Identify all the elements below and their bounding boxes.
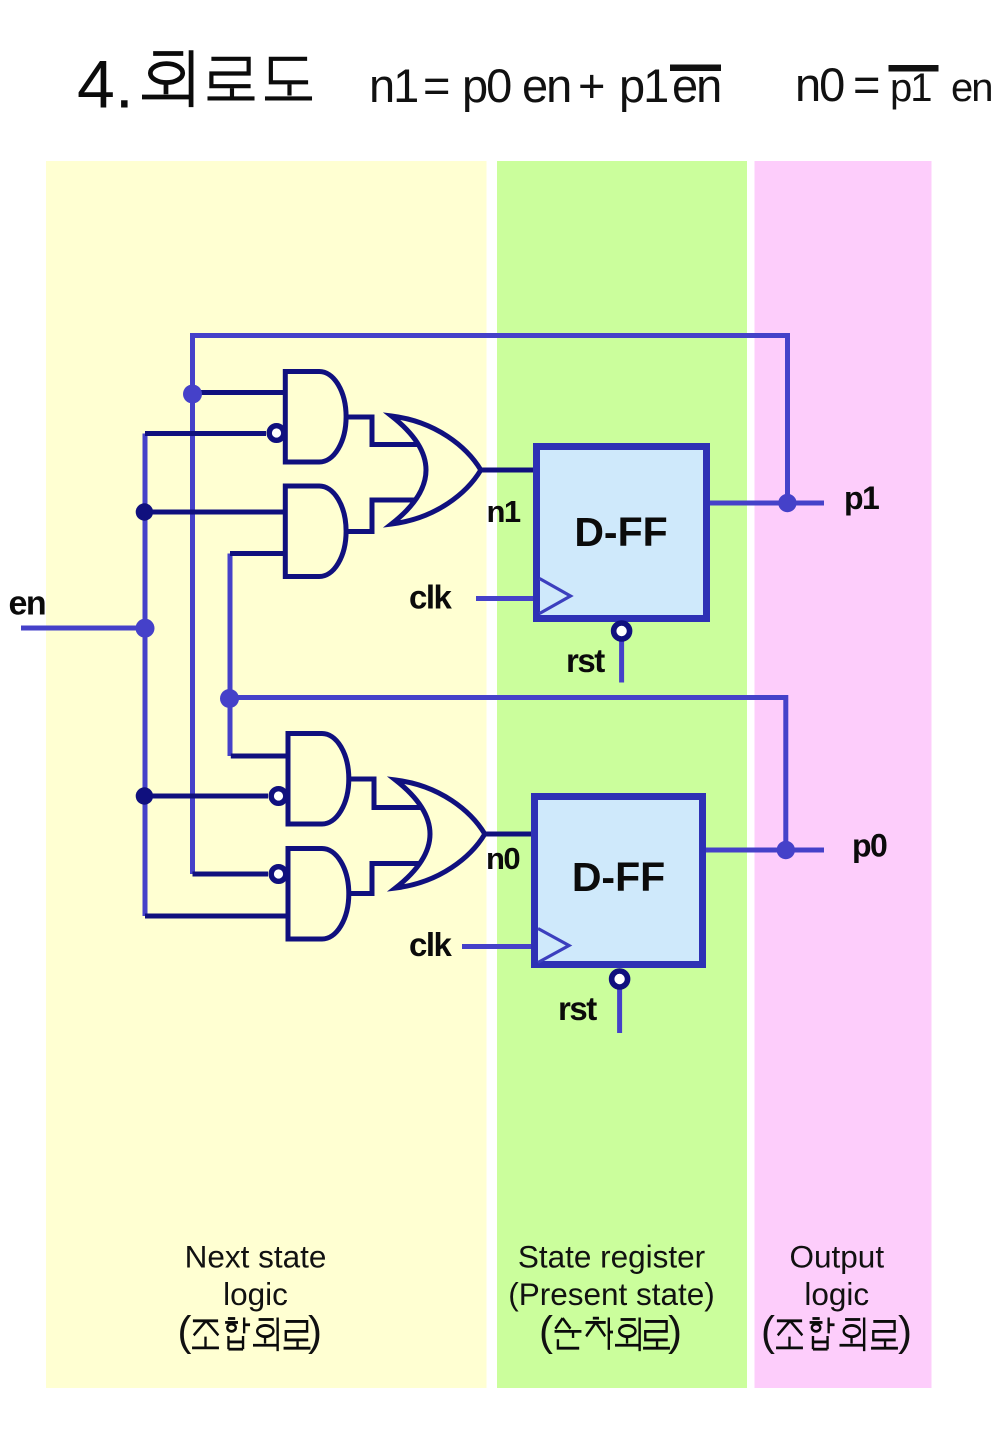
svg-text:(: ( <box>761 1308 775 1355</box>
svg-text:n0: n0 <box>795 58 844 111</box>
inverter bubble on A1 en input <box>269 426 284 441</box>
clock triangle U2 <box>538 929 569 963</box>
OR gate O2 (n0) <box>396 780 485 888</box>
wire: p1 feedback loop (top) <box>193 336 788 875</box>
wire: AND1 to OR1 step <box>346 417 420 445</box>
wire: AND3 bubble input (en) <box>144 794 268 799</box>
svg-text:=: = <box>853 58 879 111</box>
node: p1 output junction <box>778 494 796 512</box>
wire: AND4 bottom input (en) <box>145 914 289 919</box>
svg-text:D-FF: D-FF <box>572 854 665 900</box>
node: en input junction <box>136 619 155 638</box>
clock triangle U1 <box>540 579 571 614</box>
wire: AND1 bubble input (en) <box>145 431 266 436</box>
node: p0 output junction <box>777 841 795 859</box>
svg-text:p0: p0 <box>462 59 511 112</box>
AND gate A4 (p1~ en) <box>288 849 349 940</box>
inverter bubble on A3 en input <box>271 789 286 804</box>
wire: OR1 output n1 to D-FF1 <box>481 468 536 473</box>
svg-text:Output: Output <box>790 1239 885 1275</box>
wire: AND2 to OR1 step <box>346 500 420 532</box>
svg-text:n0: n0 <box>486 841 519 876</box>
green band: state register <box>497 161 747 1388</box>
wire: AND3 to OR2 step <box>349 779 425 808</box>
svg-text:(: ( <box>178 1308 192 1355</box>
svg-text:State register: State register <box>518 1239 705 1275</box>
wire: p0 branch vertical <box>228 554 233 757</box>
svg-text:en: en <box>951 66 992 110</box>
title glyph 회 <box>142 50 191 107</box>
svg-text:4.: 4. <box>77 47 134 123</box>
wire: rst1 stub <box>619 640 624 683</box>
wire: AND3 top input (p0) <box>231 754 289 759</box>
svg-text:=: = <box>423 59 449 112</box>
D-FF U1 box <box>537 447 707 619</box>
wire: AND4 bubble input (p1) <box>193 872 269 877</box>
svg-text:logic: logic <box>223 1276 288 1312</box>
wire: p1 output <box>709 501 824 506</box>
node: en at AND2 input <box>136 503 153 520</box>
svg-text:rst: rst <box>566 642 605 679</box>
svg-text:(: ( <box>539 1308 553 1355</box>
wire: AND2 bottom input (p0) <box>230 551 287 556</box>
svg-text:Next state: Next state <box>185 1239 327 1275</box>
wire: AND4 to OR2 step <box>349 864 423 894</box>
wire: clk1 input <box>476 596 536 601</box>
wire: rst2 stub <box>617 988 622 1033</box>
node: en at AND3 bubble input <box>136 787 153 804</box>
equation n1 = p0 en + p1 en~ <box>369 59 720 112</box>
AND gate A1 (p1 en~) <box>285 372 346 463</box>
wire: AND2 top input (en) <box>144 510 286 515</box>
svg-text:en: en <box>522 59 570 112</box>
svg-text:clk: clk <box>409 926 453 963</box>
svg-text:clk: clk <box>409 579 453 616</box>
wire: p0 output <box>705 848 824 853</box>
svg-text:): ) <box>308 1308 322 1355</box>
wire: en vertical <box>143 434 148 917</box>
equation n0 = p1~ en <box>795 58 992 111</box>
overbar over p1 <box>889 65 939 72</box>
OR gate O1 (n1) <box>392 416 481 524</box>
svg-text:rst: rst <box>558 990 597 1027</box>
title glyph 로 <box>207 59 254 99</box>
svg-text:en: en <box>9 585 46 623</box>
rst bubble U1 <box>614 623 630 639</box>
AND gate A2 (p0 en) <box>285 486 346 577</box>
wire: AND1 top input (p1) <box>193 390 287 395</box>
inverter bubble on A4 p1 input <box>271 867 286 882</box>
D-FF U2 box <box>535 797 703 965</box>
svg-text:p0: p0 <box>852 828 887 864</box>
svg-text:p1: p1 <box>619 59 667 112</box>
svg-text:+: + <box>578 59 604 112</box>
yellow band: next state logic <box>46 161 487 1388</box>
svg-text:D-FF: D-FF <box>574 509 667 555</box>
title glyph 도 <box>265 59 312 99</box>
svg-text:p1: p1 <box>890 66 931 110</box>
svg-text:n1: n1 <box>369 59 417 112</box>
svg-text:logic: logic <box>804 1276 869 1312</box>
wire: clk2 input <box>462 944 534 949</box>
pink band: output logic <box>755 161 932 1388</box>
overbar over en <box>670 65 721 72</box>
AND gate A3 (p0 en~) <box>288 734 349 825</box>
svg-text:p1: p1 <box>844 480 879 516</box>
wire: p0 feedback horizontal <box>230 698 786 851</box>
node: p0 feedback junction <box>220 689 239 708</box>
svg-text:n1: n1 <box>487 494 521 529</box>
svg-text:): ) <box>898 1308 912 1355</box>
wire: OR2 output n0 to D-FF2 <box>486 832 536 837</box>
node: p1 branch at AND1 input <box>183 385 202 404</box>
svg-text:): ) <box>668 1308 682 1355</box>
rst bubble U2 <box>612 971 628 987</box>
wire: en input <box>21 626 145 631</box>
